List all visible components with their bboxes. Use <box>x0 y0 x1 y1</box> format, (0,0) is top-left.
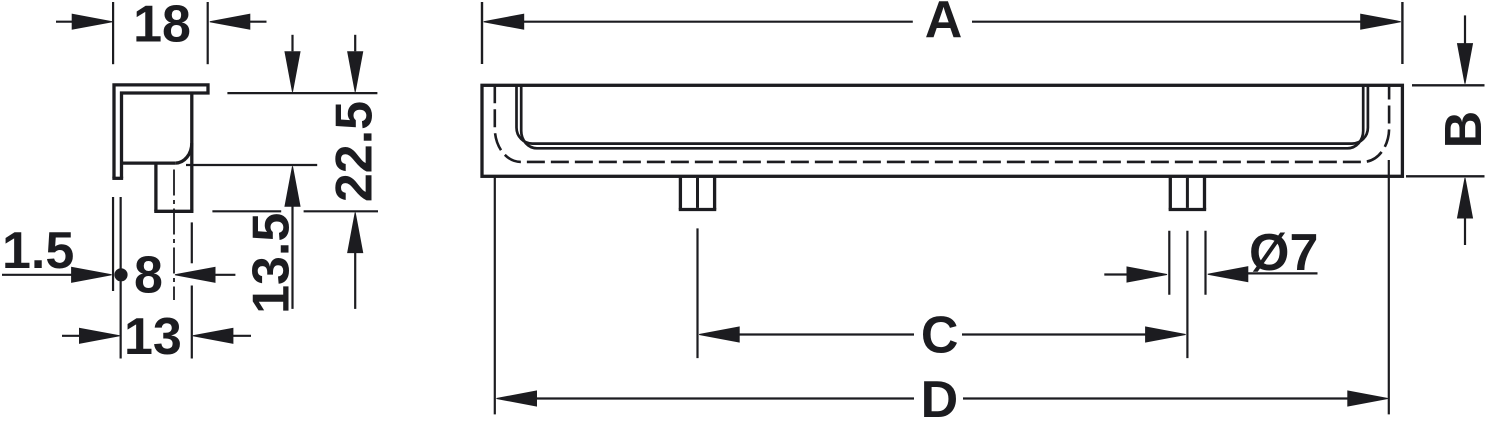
svg-text:22.5: 22.5 <box>325 101 383 202</box>
svg-text:13: 13 <box>124 308 182 366</box>
svg-text:18: 18 <box>133 0 191 54</box>
svg-text:A: A <box>925 0 963 49</box>
svg-text:D: D <box>921 371 959 421</box>
svg-text:1.5: 1.5 <box>2 222 74 280</box>
svg-text:8: 8 <box>134 246 163 304</box>
svg-text:C: C <box>921 306 959 364</box>
svg-text:Ø7: Ø7 <box>1249 224 1318 282</box>
svg-text:13.5: 13.5 <box>243 213 301 314</box>
svg-text:B: B <box>1435 111 1488 149</box>
